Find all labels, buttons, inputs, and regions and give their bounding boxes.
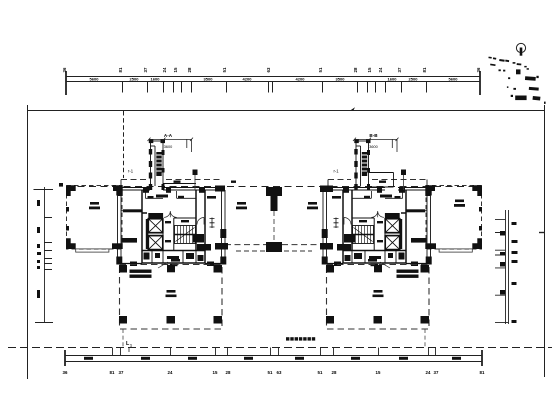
svg-text:51: 51 [268,370,273,375]
junction columns middle wing [215,186,333,250]
north arrow [516,43,525,55]
svg-text:24: 24 [162,67,167,72]
lower axis dashed left [122,329,124,347]
svg-text:63: 63 [266,67,271,72]
right mini vertical ruler [495,210,509,324]
svg-text:A-A: A-A [164,133,173,138]
svg-text:15: 15 [376,370,381,375]
svg-text:81: 81 [118,67,123,72]
lower rect dashed left [120,265,223,330]
note leader left tower [158,262,168,268]
dense note text right [397,270,419,278]
corridor hook to elevator lobby [369,173,394,188]
middle shared wing bottom edge [225,244,323,246]
lower rect columns left [119,265,222,324]
middle bottom column [266,242,282,252]
svg-text:15: 15 [213,370,218,375]
svg-text:5600: 5600 [449,76,459,81]
bottom ruler [65,348,482,367]
svg-text:1: 1 [130,344,132,348]
lower rect columns right [326,265,429,324]
right ruler figures [500,222,518,323]
middle T column [266,187,282,211]
svg-text:2500: 2500 [409,76,419,81]
drawing border left [27,105,29,379]
svg-text:37: 37 [119,370,124,375]
svg-text:1600: 1600 [151,76,161,81]
bottom dashed datum line [8,347,552,349]
far left wing [66,185,123,252]
lower axis dashed right [424,329,426,347]
garage label left [166,290,177,297]
svg-text:B-B: B-B [369,133,378,138]
svg-text:28: 28 [187,67,192,72]
site key plan scatter [488,57,545,104]
right tower stem (translated) [353,133,406,190]
svg-text:37: 37 [143,67,148,72]
stem L-turn corridor [163,184,196,191]
svg-text:3600: 3600 [369,145,377,149]
svg-text:28: 28 [226,370,231,375]
left mini vertical ruler [34,187,54,323]
svg-text:37: 37 [434,370,439,375]
left tower stem [148,133,198,190]
small dim marks near stem bases [174,181,387,183]
level line start tick [59,183,63,187]
step dashed right [328,180,427,187]
grid label r-1 left [128,169,339,174]
border tick right [539,232,545,234]
lower rect dashed right [327,265,430,330]
svg-text:15: 15 [173,67,178,72]
svg-text:81: 81 [110,370,115,375]
svg-text:37: 37 [397,67,402,72]
svg-text:3600: 3600 [164,145,172,149]
drawing border top [28,110,545,112]
svg-text:24: 24 [168,370,173,375]
grid axis vertical from border [123,111,125,178]
svg-text:2500: 2500 [130,76,140,81]
svg-text:63: 63 [277,370,282,375]
note leader right tower [380,262,390,268]
svg-text:r-1: r-1 [334,169,340,174]
svg-text:36: 36 [476,67,481,72]
main level dashed line [66,186,480,188]
svg-text:r-1: r-1 [128,169,134,174]
L1 label [126,341,132,348]
left tower body and core [116,186,226,267]
left ruler figures [37,200,41,298]
svg-text:28: 28 [353,67,358,72]
far right wing (mirror) [425,185,482,252]
svg-text:24: 24 [426,370,431,375]
svg-text:51: 51 [318,370,323,375]
svg-text:36: 36 [63,370,68,375]
top dimension ruler [66,71,480,95]
svg-text:3500: 3500 [204,76,214,81]
svg-text:81: 81 [422,67,427,72]
top ruler figures [62,67,481,81]
right tower body and core (mirror) [322,186,432,267]
bottom ruler dimension marks [84,357,461,360]
svg-text:5600: 5600 [90,76,100,81]
svg-text:36: 36 [62,67,67,72]
leader arrowhead on border [351,107,356,110]
svg-text:1600: 1600 [388,76,398,81]
svg-text:28: 28 [332,370,337,375]
watermark text small [286,337,315,340]
middle axis dashed [273,211,275,242]
svg-text:51: 51 [318,67,323,72]
wing text labels [89,200,465,210]
svg-text:3500: 3500 [336,76,346,81]
drawing border right [544,105,546,377]
garage label right [373,290,384,297]
svg-text:51: 51 [222,67,227,72]
svg-text:15: 15 [367,67,372,72]
dense note text left [130,270,152,278]
step dashed left [121,180,220,187]
svg-text:4200: 4200 [296,76,306,81]
bottom ruler numbers [63,370,485,375]
svg-text:24: 24 [378,67,383,72]
grid column at stem [193,170,198,176]
svg-text:81: 81 [480,370,485,375]
svg-text:4200: 4200 [243,76,253,81]
